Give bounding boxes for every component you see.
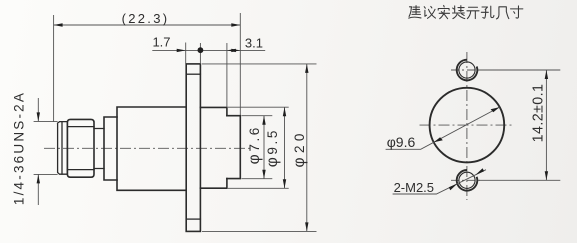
dimension dia 20 (flange): [202, 64, 317, 232]
svg-text:φ7.6: φ7.6: [246, 125, 263, 164]
flange lower hole edge line: [186, 218, 200, 220]
dimension dia 7.6: [242, 116, 273, 179]
vertical centerline: [466, 52, 468, 200]
svg-text:φ20: φ20: [291, 129, 308, 167]
nut hex flat line (lower): [67, 169, 94, 171]
char 寸: [511, 6, 523, 18]
svg-text:14.2±0.1: 14.2±0.1: [531, 84, 547, 143]
title: 建议安装开孔尺寸 (recommended mounting hole dimensions) drawn as strokes: [409, 5, 523, 18]
char 尺: [496, 7, 508, 19]
svg-text:φ9.5: φ9.5: [264, 128, 281, 167]
step ring: [104, 117, 117, 180]
dimension 1.7 (flange thickness): [152, 35, 265, 64]
char 装: [452, 6, 464, 19]
svg-text:2-M2.5: 2-M2.5: [394, 180, 434, 195]
dimension dia 9.5: [228, 107, 289, 188]
top M2.5 tapped hole: [451, 60, 481, 81]
flange plate (dia 20): [186, 64, 200, 232]
big mounting hole dia 9.6: [430, 88, 505, 163]
svg-text:1.7: 1.7: [152, 35, 170, 50]
svg-text:(22.3): (22.3): [122, 11, 170, 26]
nut hex flat line (upper): [67, 126, 94, 128]
svg-text:1/4-36UNS-2A: 1/4-36UNS-2A: [11, 91, 26, 205]
flange upper hole edge line: [186, 73, 200, 75]
bottom M2.5 tapped hole: [451, 170, 481, 191]
svg-text:φ9.6: φ9.6: [387, 134, 416, 150]
centerline (left view axis): [44, 147, 252, 149]
dimension (22.3) overall length: [54, 11, 241, 122]
char 议: [424, 6, 435, 18]
neck groove: [94, 129, 104, 169]
leader dia 9.6 (big hole diameter): [386, 107, 500, 150]
dimension 1/4-36UNS-2A thread callout: [11, 91, 57, 205]
horizontal centerline of big hole: [420, 124, 514, 126]
dimension 14.2 +/- 0.1 hole spacing: [479, 70, 560, 180]
svg-text:3.1: 3.1: [245, 35, 263, 50]
char 建: [409, 6, 421, 18]
threaded barrel 1/4-36UNS-2A: [58, 122, 68, 175]
dimension 3.1 (rear protrusion): [227, 35, 263, 107]
leader 2-M2.5 (tapped holes): [393, 168, 486, 195]
coupling nut (hex): [67, 119, 94, 177]
char 安: [438, 5, 449, 18]
main body: [117, 107, 186, 190]
rear barrel dia 9.5: [200, 107, 227, 188]
char 开: [467, 7, 479, 18]
rear end section dia 7.6: [227, 116, 240, 179]
thread chamfer line: [61, 122, 63, 174]
char 孔: [481, 6, 494, 18]
